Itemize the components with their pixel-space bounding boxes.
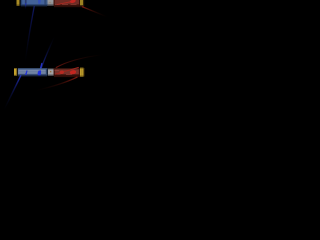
battery pack 1 (top, cropped at top edge) bbox=[17, 0, 85, 7]
pack2 red logo blob 2 bbox=[70, 70, 77, 75]
background bbox=[0, 0, 128, 128]
pack1 under-shadow bbox=[54, 6, 84, 8]
wire (blue lead from pack2 to bottom-left) bbox=[4, 76, 21, 110]
wire (bright tip at pack2 entry) bbox=[40, 64, 42, 71]
pack2 blue label glyph 2 (wire junction blob) bbox=[38, 70, 42, 75]
wire (red lead above pack2 to right) bbox=[56, 55, 104, 68]
pack1 blue label mark B bbox=[38, 0, 41, 4]
wire (blue stub under pack1) bbox=[25, 3, 27, 9]
pack1 red cell body bbox=[54, 0, 80, 6]
wire (red lead from pack2 to bottom-left) bbox=[36, 77, 77, 90]
pack1 blue label mark A (dark band in bar) bbox=[25, 0, 27, 5]
battery pack 2 (middle) bbox=[14, 67, 85, 77]
pack2 yellow tape cap left bbox=[14, 68, 17, 76]
pack1 yellow tape cap left bbox=[17, 0, 20, 6]
pack2 red label dashes bbox=[55, 69, 60, 72]
pack2 yellow tape cap right bbox=[80, 68, 84, 77]
pack2 under-shadow bbox=[54, 76, 80, 78]
pack2 blue cell body bbox=[18, 68, 48, 75]
pack1 red label streak (diagonal) bbox=[57, 1, 70, 5]
pack2 red logo blob 1 bbox=[59, 70, 64, 74]
pack1 red-cap separator bbox=[79, 0, 80, 6]
pack2 blue label glyph 1 bbox=[25, 70, 28, 75]
pack2 spacer LED dot bbox=[50, 71, 51, 72]
pack1 gray spacer bbox=[48, 0, 54, 6]
pack2 red diagonal streak bbox=[55, 67, 79, 75]
pack2 gray spacer bbox=[48, 69, 54, 76]
pack1 blue cell body bbox=[21, 0, 48, 6]
pack1 red label dashes bbox=[55, 3, 60, 6]
pack2 red-cap separator bbox=[79, 68, 80, 75]
pack2 red cell body bbox=[54, 68, 79, 75]
wire (blue lead from pack1 down) bbox=[26, 7, 35, 61]
pack1 yellow tape cap right bbox=[80, 0, 83, 6]
wire (blue lead into pack2 from above) bbox=[40, 35, 56, 72]
pack1 red logo blob bbox=[70, 0, 77, 4]
wire (red lead from pack1 to right) bbox=[83, 7, 108, 17]
